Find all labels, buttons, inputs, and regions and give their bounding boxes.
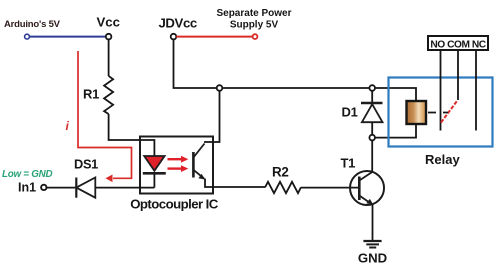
optocoupler IC box — [140, 137, 213, 194]
transistor T1 — [350, 171, 384, 205]
ground — [363, 241, 381, 248]
diode D1 (flyback, pointing up) — [371, 91, 373, 103]
wire T1 emitter to ground — [372, 205, 374, 240]
terminal Arduino 5V (open circle) — [25, 34, 30, 39]
wire red JDVcc to separate supply terminal — [176, 36, 252, 38]
node Vcc — [106, 34, 112, 40]
wire T1 collector up to D1 bottom node — [371, 140, 373, 172]
resistor R2 — [265, 182, 301, 193]
svg-text:Relay: Relay — [425, 152, 460, 167]
wire COM contact — [457, 50, 459, 100]
svg-text:Low = GND: Low = GND — [2, 169, 52, 180]
wire DS1 to LED cathode — [95, 187, 154, 189]
relay contacts box NO COM NC — [428, 36, 488, 50]
diode DS1 (pointing left) — [75, 178, 77, 198]
svg-text:In1: In1 — [18, 180, 36, 194]
wire Vcc down to R1 — [108, 39, 110, 76]
svg-text:DS1: DS1 — [74, 157, 98, 172]
svg-text:JDVcc: JDVcc — [159, 16, 197, 31]
relay switch arm (red) — [441, 100, 458, 122]
svg-text:Vcc: Vcc — [97, 15, 120, 30]
T1 emitter arrowhead — [366, 199, 373, 205]
svg-text:Optocoupler IC: Optocoupler IC — [130, 197, 219, 212]
node junction opto collector / rail — [217, 85, 223, 91]
red annotation arrowhead — [106, 175, 113, 183]
terminal In1 (open circle) — [41, 185, 46, 190]
wire D1 bottom node to relay coil bottom — [375, 124, 416, 138]
relay box (blue) — [389, 78, 493, 147]
node D1 top — [369, 85, 375, 91]
wire R1 bottom to optocoupler LED anode — [109, 114, 155, 156]
red light arrows — [168, 156, 189, 172]
wire LED cathode down — [153, 175, 155, 188]
phototransistor (inside optocoupler) — [193, 144, 204, 179]
svg-text:R2: R2 — [272, 165, 289, 180]
node D1 bottom — [369, 135, 375, 141]
wire phototransistor emitter to R2 — [205, 179, 265, 188]
wire In1 to DS1 — [46, 187, 76, 189]
relay actuation dashed link — [428, 112, 448, 114]
wire R2 to T1 base — [301, 187, 358, 189]
svg-text:Arduino's 5V: Arduino's 5V — [4, 19, 61, 30]
svg-text:Separate Power: Separate Power — [216, 8, 291, 19]
wire NO contact — [440, 50, 442, 131]
red current annotation path — [78, 51, 132, 178]
LED cathode bar — [143, 172, 166, 175]
svg-text:T1: T1 — [341, 156, 356, 171]
wire NC contact — [475, 50, 477, 131]
svg-text:D1: D1 — [342, 104, 358, 119]
relay coil — [407, 101, 427, 124]
svg-text:Supply 5V: Supply 5V — [230, 20, 279, 31]
terminal separate supply (open red circle) — [253, 34, 258, 39]
svg-text:R1: R1 — [83, 86, 99, 101]
node JDVcc — [171, 34, 177, 40]
svg-text:GND: GND — [358, 251, 387, 266]
resistor R1 — [104, 76, 113, 114]
wire opto collector up to rail — [204, 91, 220, 142]
wire blue Arduino 5V to Vcc — [29, 36, 109, 38]
phototransistor emitter arrowhead — [198, 174, 205, 180]
svg-text:NO COM NC: NO COM NC — [430, 39, 486, 50]
wire JDVcc rail down and right to relay coil — [174, 39, 417, 101]
LED D (inside optocoupler) — [144, 156, 164, 171]
